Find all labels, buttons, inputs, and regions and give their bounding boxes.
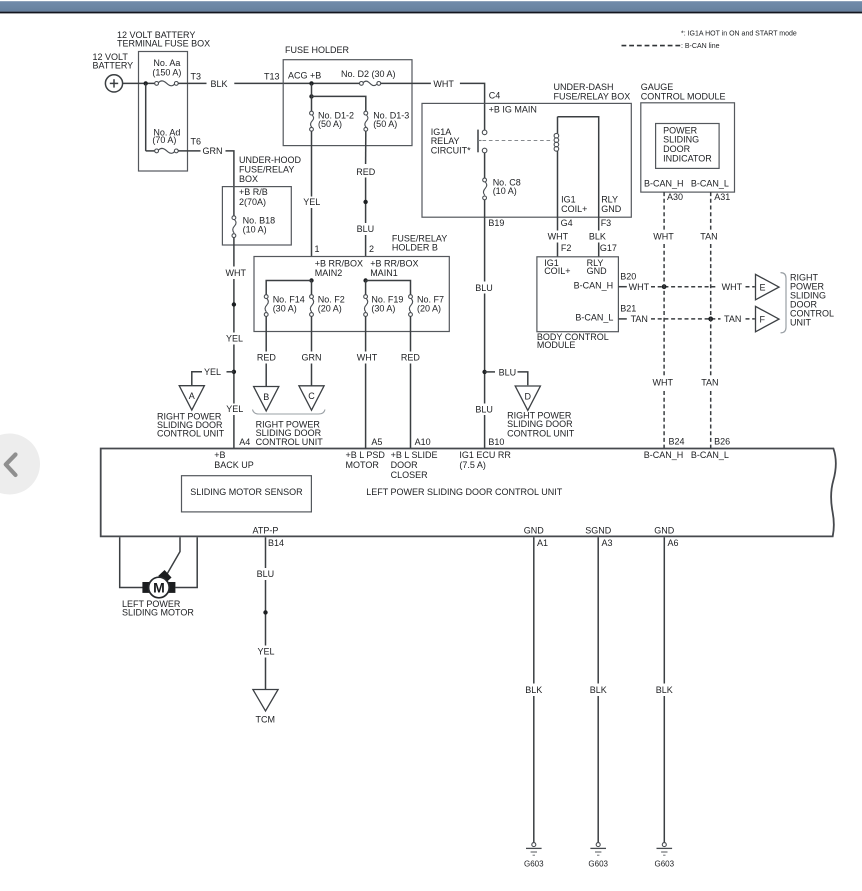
label IG1A RELAY CIRCUIT* <box>431 127 471 156</box>
svg-text:ATP-P: ATP-P <box>253 526 279 536</box>
legend B-CAN dashed sample <box>622 43 720 50</box>
node junction B-CAN_L <box>708 317 713 322</box>
svg-text:MOTOR: MOTOR <box>346 460 380 470</box>
svg-text:CONTROL MODULE: CONTROL MODULE <box>641 92 726 102</box>
svg-text:G603: G603 <box>588 860 608 869</box>
node splice WHT/YEL <box>232 302 236 306</box>
fuse No. F7 (20 A) <box>409 294 444 316</box>
connector triangle E <box>756 274 780 299</box>
svg-text:TCM: TCM <box>256 715 276 725</box>
wire to F19 <box>365 281 367 295</box>
svg-text:GND: GND <box>601 204 622 214</box>
svg-text:(30 A): (30 A) <box>273 303 297 313</box>
svg-text:GND: GND <box>587 266 608 276</box>
B-CAN_H dashed line A30 to B24 <box>653 192 675 448</box>
label right power sliding door control unit (B C) <box>256 420 324 447</box>
label IG1 COIL+ (BCM) <box>544 258 570 276</box>
under-hood fuse/relay box <box>222 155 301 245</box>
header dark line <box>0 12 862 14</box>
svg-text:BLU: BLU <box>357 224 375 234</box>
svg-text:(20 A): (20 A) <box>318 303 342 313</box>
svg-text:MAIN2: MAIN2 <box>315 268 343 278</box>
svg-text:WHT: WHT <box>722 282 743 292</box>
svg-text:A30: A30 <box>667 192 683 202</box>
svg-text:WHT: WHT <box>653 378 674 388</box>
svg-text:B-CAN_L: B-CAN_L <box>575 312 613 322</box>
node junction MAIN2 <box>309 278 313 282</box>
under-dash fuse/relay box <box>422 82 631 217</box>
svg-text:(7.5 A): (7.5 A) <box>459 460 486 470</box>
wire F3 to G17 BLK <box>589 217 606 257</box>
battery BAT1 <box>93 52 134 92</box>
svg-text:WHT: WHT <box>548 232 569 242</box>
svg-text:GND: GND <box>524 526 545 536</box>
svg-text:WHT: WHT <box>653 231 674 241</box>
svg-text:BLU: BLU <box>257 569 275 579</box>
svg-text:ACG +B: ACG +B <box>288 71 321 81</box>
svg-text:GRN: GRN <box>203 146 223 156</box>
label GND A6 <box>654 526 678 549</box>
wire F7 RED to A10 <box>401 316 421 448</box>
wire GND A6 BLK <box>656 537 673 842</box>
svg-text:INDICATOR: INDICATOR <box>663 153 712 163</box>
svg-text:B: B <box>263 392 269 402</box>
svg-text:(20 A): (20 A) <box>417 303 441 313</box>
fuse holder box <box>283 45 412 146</box>
svg-text:+B L PSD: +B L PSD <box>346 450 386 460</box>
connector triangle B <box>254 387 279 411</box>
wire B14 BLU YEL to TCM <box>257 537 275 689</box>
svg-text:HOLDER B: HOLDER B <box>392 242 438 252</box>
svg-text:B24: B24 <box>669 437 685 447</box>
svg-text:BOX: BOX <box>239 174 258 184</box>
svg-text:(70 A): (70 A) <box>152 135 176 145</box>
svg-text:B-CAN_L: B-CAN_L <box>691 179 729 189</box>
fuse No. D1-3 (50 A) <box>364 111 409 132</box>
label IG1 ECU RR (7.5 A) <box>459 450 511 470</box>
wire B20 stub WHT dashed <box>618 282 754 292</box>
svg-text:GND: GND <box>654 526 675 536</box>
node junction YEL branch <box>232 370 236 374</box>
svg-text:B14: B14 <box>268 538 284 548</box>
wire SGND A3 BLK <box>590 537 607 842</box>
label +B L PSD MOTOR <box>346 450 386 470</box>
svg-text:+B: +B <box>214 450 225 460</box>
svg-text:COIL+: COIL+ <box>561 204 587 214</box>
bracket for E F <box>781 273 787 333</box>
svg-text:No. D2 (30 A): No. D2 (30 A) <box>341 69 396 79</box>
wire B21 stub TAN dashed <box>618 314 754 324</box>
connector triangle C <box>299 386 324 410</box>
svg-text:+B IG MAIN: +B IG MAIN <box>489 105 537 115</box>
svg-text:RLY: RLY <box>601 195 618 205</box>
svg-text:F: F <box>760 315 766 325</box>
svg-text:MAIN1: MAIN1 <box>370 268 398 278</box>
svg-text:F2: F2 <box>561 243 572 253</box>
svg-text:SLIDING MOTOR: SLIDING MOTOR <box>122 607 194 617</box>
svg-text:TAN: TAN <box>631 314 648 324</box>
wire D1-2 down YEL <box>303 131 320 256</box>
wire battery to fuse Aa <box>123 82 155 84</box>
svg-text:B-CAN_L: B-CAN_L <box>691 450 729 460</box>
svg-text:B-CAN_H: B-CAN_H <box>644 179 684 189</box>
wire branch to F14 <box>266 281 311 295</box>
back chevron button <box>0 434 40 495</box>
svg-text:C: C <box>308 391 315 401</box>
body control module box <box>537 257 619 350</box>
node branch junction <box>309 94 313 98</box>
svg-text:FUSE/RELAY: FUSE/RELAY <box>239 165 294 175</box>
fuse No. D2 (30 A) <box>341 69 396 86</box>
connector triangle F <box>756 306 780 331</box>
relay dashed link <box>483 140 554 142</box>
wire B18 down WHT YEL to A4 <box>226 238 247 449</box>
svg-text:A10: A10 <box>415 437 431 447</box>
svg-text:YEL: YEL <box>204 367 221 377</box>
relay contact <box>478 130 487 153</box>
wire to fuse Ad <box>146 83 155 150</box>
svg-text:GRN: GRN <box>302 353 322 363</box>
wire F2 GRN to triangle C <box>302 316 322 385</box>
svg-text:A3: A3 <box>602 538 613 548</box>
node splice RED/BLU <box>363 200 367 204</box>
fuse/relay holder B box <box>254 233 449 331</box>
svg-text:T13: T13 <box>264 72 280 82</box>
svg-text:T3: T3 <box>191 72 202 82</box>
svg-text:+B R/B: +B R/B <box>239 187 268 197</box>
ground G603 (A1) <box>524 843 544 869</box>
wire GND A1 BLK <box>525 537 542 842</box>
svg-text:RED: RED <box>257 353 277 363</box>
label IG1 COIL+ (box) <box>561 195 587 215</box>
node junction BLU branch <box>482 370 486 374</box>
node splice BLU/YEL <box>263 610 267 614</box>
svg-text:E: E <box>760 283 766 293</box>
svg-text:BLK: BLK <box>589 232 606 242</box>
svg-text:BLK: BLK <box>656 685 673 695</box>
svg-text:BATTERY: BATTERY <box>93 61 134 71</box>
svg-text:GAUGE: GAUGE <box>641 82 674 92</box>
svg-text:+B L SLIDE: +B L SLIDE <box>391 450 438 460</box>
svg-text:B10: B10 <box>488 437 504 447</box>
svg-text:CONTROL UNIT: CONTROL UNIT <box>157 428 225 438</box>
wire motor loop left <box>120 537 143 587</box>
svg-text:A: A <box>189 391 195 401</box>
svg-text:DOOR: DOOR <box>391 460 419 470</box>
wire D1 branch <box>312 83 366 111</box>
svg-text:(30 A): (30 A) <box>371 303 395 313</box>
wire contact to fuse C8 and B19 <box>484 153 486 217</box>
svg-text:B26: B26 <box>714 437 730 447</box>
svg-text:CONTROL UNIT: CONTROL UNIT <box>256 437 324 447</box>
wire motor loop right <box>175 537 197 587</box>
fuse No. F2 (20 A) <box>310 294 345 316</box>
fuse No. C8 (10 A) <box>483 177 521 200</box>
svg-text:B21: B21 <box>620 304 636 314</box>
fuse No. Ad (70 A) <box>152 128 180 154</box>
svg-text:G603: G603 <box>655 860 675 869</box>
svg-text:UNDER-DASH: UNDER-DASH <box>554 82 614 92</box>
wire D1-3 down RED splice BLU <box>356 131 376 256</box>
svg-text:BLU: BLU <box>475 405 493 415</box>
connector triangle A <box>157 386 225 439</box>
fuse No. D1-2 (50 A) <box>310 111 354 132</box>
svg-text:G17: G17 <box>600 243 617 253</box>
wire B19 to B10 BLU <box>475 217 493 448</box>
svg-text:T6: T6 <box>191 136 202 146</box>
fuse No. F19 (30 A) <box>364 294 404 316</box>
svg-text:CONTROL UNIT: CONTROL UNIT <box>507 428 575 438</box>
wire to F2 <box>311 281 313 295</box>
svg-text:BLK: BLK <box>590 685 607 695</box>
node junction B-CAN_H <box>662 284 667 289</box>
wire T6 GRN to under-hood box <box>178 146 234 216</box>
label SGND A3 <box>585 526 612 549</box>
svg-text:(10 A): (10 A) <box>493 186 517 196</box>
label RLY GND (BCM) <box>587 258 608 276</box>
svg-text:UNDER-HOOD: UNDER-HOOD <box>239 155 301 165</box>
svg-text:BLK: BLK <box>525 685 542 695</box>
svg-text:A1: A1 <box>537 538 548 548</box>
svg-text:B-CAN_H: B-CAN_H <box>644 450 684 460</box>
svg-text:WHT: WHT <box>226 268 247 278</box>
connector triangle D <box>507 386 575 438</box>
svg-text:RED: RED <box>356 167 376 177</box>
node junction MAIN1 <box>363 278 367 282</box>
svg-text:FUSE HOLDER: FUSE HOLDER <box>285 45 350 55</box>
svg-text:+B RR/BOX: +B RR/BOX <box>315 258 363 268</box>
label +B RR/BOX MAIN1 <box>370 258 418 278</box>
svg-text:B-CAN_H: B-CAN_H <box>574 280 614 290</box>
svg-text:B19: B19 <box>488 218 504 228</box>
wire F19 WHT to A5 <box>357 316 378 448</box>
svg-text:TAN: TAN <box>724 314 741 324</box>
label +B L SLIDE DOOR CLOSER <box>391 450 438 480</box>
B-CAN_L dashed line A31 to B26 <box>700 192 718 448</box>
svg-text:C4: C4 <box>489 90 501 100</box>
fuse No. F14 (30 A) <box>264 294 304 316</box>
legend note IG1A <box>681 31 797 38</box>
wire G4 to F2 WHT <box>548 217 569 257</box>
svg-text:+B RR/BOX: +B RR/BOX <box>370 258 418 268</box>
svg-text:No. Aa: No. Aa <box>153 58 180 68</box>
left power sliding door control unit box <box>101 449 836 537</box>
svg-text:(50 A): (50 A) <box>318 119 342 129</box>
wire T3 to fuse holder, BLK <box>178 79 359 89</box>
svg-text:(10 A): (10 A) <box>243 224 267 234</box>
fuse No. B18 (10 A) <box>232 216 275 238</box>
svg-text:F3: F3 <box>601 218 612 228</box>
svg-text:SLIDING MOTOR SENSOR: SLIDING MOTOR SENSOR <box>190 487 303 497</box>
svg-text:BLU: BLU <box>475 283 493 293</box>
svg-text:BLK: BLK <box>211 79 228 89</box>
wire D2 to C4 corner, WHT <box>381 79 485 131</box>
wire motor diagonal <box>167 537 180 574</box>
ground G603 (A6) <box>655 843 675 869</box>
svg-text:SGND: SGND <box>585 526 612 536</box>
wire F14 RED to triangle B <box>257 316 277 386</box>
svg-text:TAN: TAN <box>701 378 718 388</box>
relay coil <box>554 117 559 218</box>
svg-text:BACK UP: BACK UP <box>214 460 254 470</box>
label RLY GND (box) <box>601 195 622 215</box>
svg-text:TERMINAL FUSE BOX: TERMINAL FUSE BOX <box>117 39 210 49</box>
label +B BACK UP <box>214 450 254 470</box>
wire BLU branch to triangle D <box>485 367 528 385</box>
svg-text:B20: B20 <box>620 271 636 281</box>
wire branch to F7 <box>366 281 411 295</box>
svg-text:: B-CAN line: : B-CAN line <box>681 43 720 50</box>
svg-text:CLOSER: CLOSER <box>391 470 429 480</box>
connector triangle TCM <box>253 690 278 725</box>
svg-text:WHT: WHT <box>433 79 454 89</box>
svg-text:UNIT: UNIT <box>790 318 811 328</box>
12 volt battery terminal fuse box <box>117 30 210 171</box>
svg-text:YEL: YEL <box>303 197 320 207</box>
svg-text:A31: A31 <box>714 192 730 202</box>
label +B RR/BOX MAIN2 <box>315 258 363 278</box>
power sliding door indicator box <box>656 124 720 169</box>
svg-text:CIRCUIT*: CIRCUIT* <box>431 145 471 155</box>
svg-text:2: 2 <box>369 244 374 254</box>
label right power sliding door control unit (E F) <box>790 273 834 328</box>
svg-text:*: IG1A HOT in ON and START mo: *: IG1A HOT in ON and START mode <box>681 31 797 38</box>
svg-text:FUSE/RELAY BOX: FUSE/RELAY BOX <box>554 92 631 102</box>
svg-text:M: M <box>153 580 165 596</box>
svg-text:(50 A): (50 A) <box>373 119 397 129</box>
svg-text:G4: G4 <box>561 218 573 228</box>
svg-text:TAN: TAN <box>700 231 717 241</box>
wire YEL branch to triangle A <box>192 367 234 385</box>
fuse No. Aa (150 A) <box>152 58 181 86</box>
wire coil top to RLY GND leg <box>558 117 599 218</box>
svg-text:LEFT POWER SLIDING DOOR CONTRO: LEFT POWER SLIDING DOOR CONTROL UNIT <box>366 487 563 497</box>
ground G603 (A3) <box>588 843 608 869</box>
node junction battery feed <box>144 81 148 85</box>
svg-text:1: 1 <box>315 244 320 254</box>
svg-text:YEL: YEL <box>226 333 243 343</box>
svg-text:A5: A5 <box>371 437 382 447</box>
svg-text:YEL: YEL <box>258 647 275 657</box>
motor M left power sliding motor <box>122 570 194 617</box>
svg-text:G603: G603 <box>524 860 544 869</box>
svg-text:IG1: IG1 <box>561 195 576 205</box>
node ACG junction <box>309 81 313 85</box>
label GND A1 <box>524 526 548 549</box>
sliding motor sensor box <box>182 476 312 512</box>
svg-text:RED: RED <box>401 353 421 363</box>
svg-text:MODULE: MODULE <box>537 340 576 350</box>
svg-text:YEL: YEL <box>226 404 243 414</box>
brace under B and C <box>253 410 326 415</box>
svg-text:D: D <box>525 391 532 401</box>
gauge control module box <box>641 82 735 192</box>
svg-text:COIL+: COIL+ <box>544 266 570 276</box>
svg-text:BLU: BLU <box>499 367 517 377</box>
svg-text:IG1 ECU RR: IG1 ECU RR <box>459 450 511 460</box>
svg-text:A4: A4 <box>239 437 250 447</box>
svg-text:WHT: WHT <box>629 282 650 292</box>
svg-text:WHT: WHT <box>357 353 378 363</box>
svg-text:A6: A6 <box>668 538 679 548</box>
svg-text:2(70A): 2(70A) <box>239 197 266 207</box>
svg-text:(150 A): (150 A) <box>152 68 181 78</box>
